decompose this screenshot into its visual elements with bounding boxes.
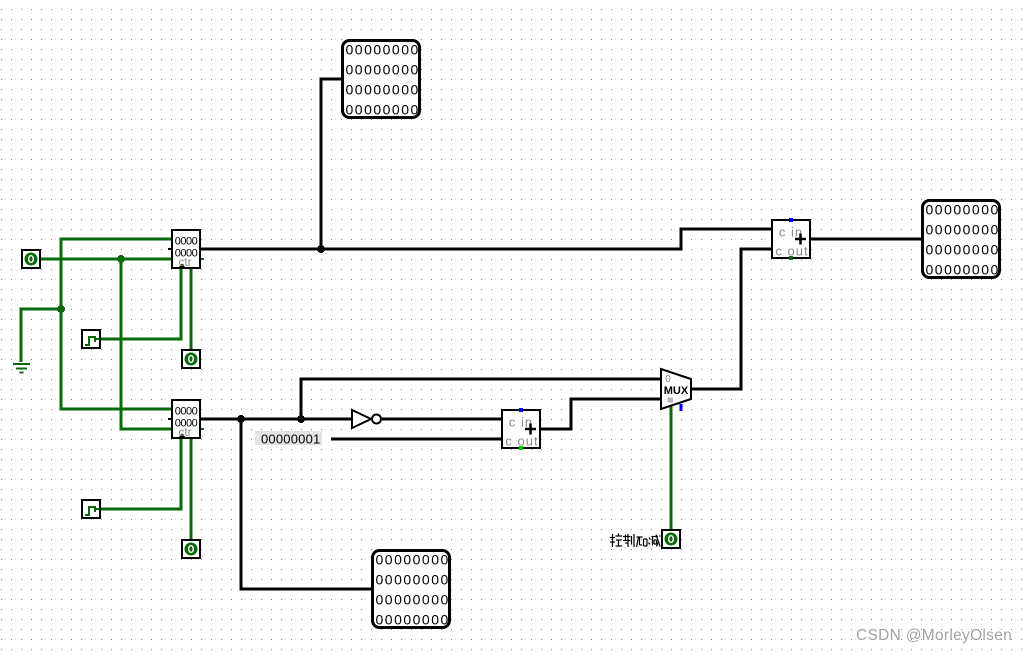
wire counter2 output to NOT gate <box>201 418 351 421</box>
input pin P1 <box>22 250 40 268</box>
multiplexer MUX <box>661 369 691 411</box>
node junction at 301,419 <box>297 415 305 423</box>
wire counter1 reset to pin2 <box>190 269 193 349</box>
wire constant to adder U2 second input <box>331 438 501 441</box>
NOT gate G1 <box>352 410 381 428</box>
wire adder U1 output to right display <box>811 238 921 241</box>
constant 00000001 <box>255 431 322 447</box>
counter CTR2 <box>168 400 204 439</box>
output display D2 right <box>923 201 1000 278</box>
adder U2 <box>502 408 540 450</box>
svg-text:0: 0 <box>665 374 671 385</box>
svg-text:00000000: 00000000 <box>346 42 420 58</box>
svg-text:ctr: ctr <box>178 425 191 439</box>
wire MUX output to adder U1 second input <box>691 249 771 389</box>
ground <box>13 364 30 373</box>
label 控制加减 (control add/subtract) <box>610 534 661 548</box>
clock CLK2 <box>82 500 100 518</box>
svg-text:00000000: 00000000 <box>926 262 1000 278</box>
input pin P4 control add/sub <box>662 530 680 548</box>
svg-text:00000000: 00000000 <box>926 242 1000 258</box>
node junction at 121,259 <box>117 255 125 263</box>
wire input pin1 to counter1 enable <box>41 258 171 261</box>
wire pin1 net down to counter2 enable <box>121 259 171 429</box>
output display D1 top <box>343 41 420 118</box>
wire MUX select to pin4 <box>670 404 673 529</box>
wire branch to MUX input 0 <box>301 379 661 419</box>
counter CTR1 <box>168 230 204 269</box>
wire adder U2 output to MUX input 1 <box>541 399 661 429</box>
wire counter1 output bus to adder U1 <box>201 229 771 249</box>
svg-text:00000000: 00000000 <box>376 612 450 628</box>
svg-text:00000000: 00000000 <box>346 82 420 98</box>
adder U1 <box>772 218 810 260</box>
svg-text:00000001: 00000001 <box>261 432 320 447</box>
clock CLK1 <box>82 330 100 348</box>
svg-text:00000000: 00000000 <box>376 592 450 608</box>
svg-text:0000: 0000 <box>175 236 198 248</box>
wire branch to top display <box>321 79 343 249</box>
wire ground net to counter data inputs <box>61 239 171 409</box>
wire clock1 to counter1 clock input <box>101 269 181 339</box>
wire ground tap <box>21 309 61 362</box>
svg-text:00000000: 00000000 <box>926 222 1000 238</box>
svg-text:00000000: 00000000 <box>376 572 450 588</box>
svg-text:CSDN @MorleyOlsen: CSDN @MorleyOlsen <box>856 627 1012 644</box>
svg-text:00000000: 00000000 <box>376 552 450 568</box>
svg-text:0000: 0000 <box>175 406 198 418</box>
svg-text:00000000: 00000000 <box>346 62 420 78</box>
input pin P2 <box>182 350 200 368</box>
node junction at 241,419 <box>237 415 245 423</box>
svg-text:ctr: ctr <box>178 255 191 269</box>
svg-text:MUX: MUX <box>664 385 689 397</box>
input pin P3 <box>182 540 200 558</box>
wire NOT gate output to adder U2 <box>382 418 501 421</box>
node junction at 321,249 <box>317 245 325 253</box>
wire counter2 reset to pin3 <box>190 439 193 539</box>
output display D3 bottom <box>373 551 450 628</box>
svg-text:00000000: 00000000 <box>926 202 1000 218</box>
svg-text:00000000: 00000000 <box>346 102 420 118</box>
wire branch to bottom display <box>241 419 371 589</box>
node junction at 61,309 <box>57 305 65 313</box>
wire clock2 to counter2 clock input <box>101 439 181 509</box>
